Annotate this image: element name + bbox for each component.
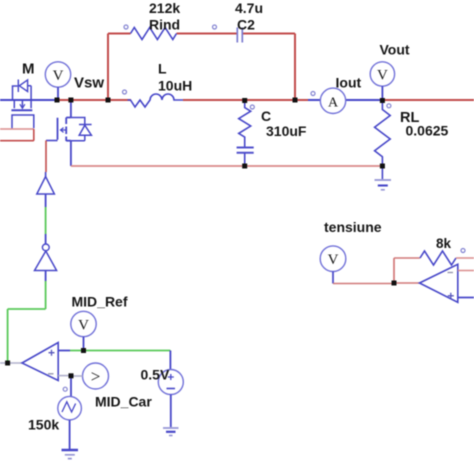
inductor L	[128, 94, 184, 107]
wire: MID_Ref net (green)	[70, 350, 170, 352]
junction: comparator output node	[5, 361, 10, 366]
capacitor C plates	[237, 148, 254, 153]
wire: feedback to 8k (red)	[394, 257, 420, 259]
wire: carrier source top lead (blue)	[70, 376, 72, 397]
wire: C bottom stem (blue)	[244, 154, 246, 167]
op-amp U2 plus pin mark	[448, 293, 454, 299]
svg-text:8k: 8k	[436, 236, 452, 251]
wire: tensiune stem (blue)	[332, 272, 334, 284]
wire: bottom rail (red)	[71, 165, 383, 167]
transistor M channel stubs	[14, 101, 31, 108]
voltmeter Vsw circle	[45, 62, 70, 87]
transistor M (upper MOSFET) body outline	[13, 86, 32, 101]
wire: op-amp minus input stub (pink)	[458, 270, 474, 272]
wire: M gate vertical (red)	[33, 129, 35, 141]
wire: comparator output net vertical (green)	[8, 281, 46, 363]
wire: gate drive vertical to buffer (red)	[45, 141, 47, 173]
node marker: RL top terminal	[387, 104, 391, 108]
wire: buffer input stub (blue)	[45, 172, 47, 177]
transistor M2 arrow	[61, 128, 67, 133]
wire: op-amp output link (red)	[394, 282, 420, 284]
wire: M2 gate lead (blue)	[46, 140, 58, 142]
buffer gate A1	[37, 177, 55, 195]
node marker: 8k right terminal	[461, 249, 465, 253]
voltmeter MID_Car circle	[83, 363, 109, 389]
svg-text:V: V	[53, 68, 64, 84]
node marker: Iout left terminal	[311, 92, 315, 96]
wire: inverter input stem (blue)	[45, 271, 47, 282]
wire: top feedback loop horizontal segments (red)	[108, 33, 295, 35]
node marker: carrier source terminal	[63, 387, 67, 391]
svg-text:4.7u: 4.7u	[235, 0, 263, 16]
wire: op-amp plus input stub (blue)	[458, 297, 474, 299]
svg-text:V: V	[377, 68, 388, 84]
junction: top loop right	[293, 98, 298, 103]
svg-text:L: L	[158, 61, 167, 77]
inverter gate A2 bubble	[42, 244, 49, 251]
resistor RL zigzag	[375, 100, 391, 166]
wire: 0.5V bottom stem (blue)	[170, 395, 172, 428]
ground: 0.5V source	[163, 427, 179, 429]
wire: comparator minus input stub (gray)	[58, 375, 71, 377]
transistor M2 (lower MOSFET) channel and gate	[58, 118, 71, 142]
svg-text:tensiune: tensiune	[324, 219, 382, 235]
wire: 0.5V source top lead (blue)	[169, 351, 171, 370]
wire: 8k right lead to edge (red)	[456, 257, 474, 259]
svg-text:Rind: Rind	[149, 17, 180, 33]
svg-text:MID_Ref: MID_Ref	[72, 294, 128, 310]
wire: buffer-to-inverter net (green)	[45, 207, 47, 234]
svg-text:10uH: 10uH	[158, 78, 192, 94]
svg-text:Vout: Vout	[380, 42, 410, 58]
source 0.5V plus mark	[168, 374, 174, 380]
svg-text:Iout: Iout	[336, 75, 362, 91]
svg-text:MID_Car: MID_Car	[95, 394, 152, 410]
node marker: C top terminal	[250, 105, 254, 109]
op-amp U2 triangle	[420, 264, 458, 302]
ammeter Iout circle	[320, 88, 345, 113]
wire: inverter output stem (blue)	[45, 234, 47, 244]
wire: MID_Car stub (gray)	[71, 375, 83, 377]
svg-text:>: >	[91, 367, 101, 386]
junction: Vout node	[380, 98, 385, 103]
svg-text:Vsw: Vsw	[74, 75, 104, 92]
junction: C bottom node	[242, 164, 247, 169]
wire: RL ground stem (blue)	[381, 166, 383, 179]
svg-text:C: C	[261, 108, 271, 124]
wire: M2 drain vertical (blue)	[70, 100, 72, 118]
junction: tensiune feedback node	[392, 281, 397, 286]
wire: carrier source bottom stem (blue)	[69, 420, 71, 449]
junction: top loop left	[106, 98, 111, 103]
wire: ammeter left lead (blue)	[308, 99, 321, 101]
wire: top feedback loop right vertical (red)	[294, 34, 296, 101]
ground: carrier source	[62, 449, 79, 451]
wire: Vout stem (blue)	[381, 86, 383, 100]
svg-text:C2: C2	[237, 17, 255, 33]
transistor M2 body diode	[71, 118, 92, 141]
junction: Vsw node	[55, 98, 60, 103]
wire: MID_Ref stem (blue)	[83, 337, 85, 351]
transistor M arrow	[20, 104, 25, 108]
svg-text:212k: 212k	[149, 0, 180, 16]
node marker: C2 left terminal	[213, 25, 217, 29]
junction: C top node	[242, 98, 247, 103]
svg-text:0.0625: 0.0625	[406, 123, 449, 139]
transistor M gate electrode	[12, 115, 34, 128]
svg-text:V: V	[78, 318, 89, 334]
wire: comparator plus input stub (blue)	[58, 350, 70, 352]
op-amp comparator U1 plus pin mark	[49, 350, 55, 356]
svg-text:A: A	[328, 95, 339, 110]
node marker: Rind left terminal	[124, 25, 128, 29]
wire: M gate lower lead to left edge (red)	[0, 140, 34, 142]
source V_carrier triangle-wave glyph	[62, 402, 76, 412]
source V_carrier 150k circle	[58, 396, 82, 420]
wire: output node to right edge (red)	[380, 99, 474, 101]
wire: main node Vsw-to-L segment (red)	[57, 99, 131, 101]
wire: M2 source to bottom rail (blue)	[70, 141, 72, 166]
voltmeter MID_Ref circle	[71, 311, 96, 336]
inverter gate A2 triangle	[35, 251, 57, 271]
resistor Rind	[131, 28, 177, 40]
junction: RL bottom node	[380, 164, 385, 169]
source 0.5V minus mark	[167, 388, 176, 390]
op-amp comparator U1 minus pin mark	[48, 373, 54, 375]
wire: top feedback loop left vertical (red)	[107, 34, 109, 101]
wire: Vsw stem (blue)	[57, 87, 59, 100]
capacitor C2	[237, 28, 242, 43]
op-amp U2 minus pin mark	[448, 272, 454, 274]
svg-text:150k: 150k	[28, 417, 59, 433]
ground: RL	[375, 179, 392, 181]
wire: comparator output stub to left edge (gray)	[0, 362, 22, 364]
svg-text:310uF: 310uF	[266, 123, 307, 139]
voltmeter Vout circle	[370, 62, 394, 86]
wire: M gate upper lead to left edge (red)	[0, 128, 34, 130]
wire: feedback node vertical (red)	[393, 258, 395, 283]
svg-text:V: V	[328, 252, 339, 268]
svg-text:M: M	[22, 61, 35, 78]
voltmeter tensiune circle	[320, 246, 346, 272]
resistor 8k zigzag	[420, 251, 456, 265]
wire: L-to-ammeter segment (red)	[183, 99, 308, 101]
transistor M internal diode	[18, 80, 27, 93]
junction: MID_Ref node	[81, 348, 86, 353]
source 0.5V circle	[158, 370, 183, 395]
wire: main node left segment (blue)	[0, 99, 57, 101]
junction: carrier node	[69, 373, 74, 378]
node marker: L left terminal	[123, 90, 127, 94]
capacitor C esr zigzag	[239, 100, 251, 147]
junction: M2 drain node	[68, 98, 73, 103]
transistor M gate bar	[11, 109, 32, 111]
wire: buffer output stem (blue)	[45, 194, 47, 207]
wire: tensiune link (pink)	[333, 283, 394, 285]
op-amp comparator U1 triangle	[22, 343, 58, 381]
wire: ammeter right lead (blue)	[346, 99, 381, 101]
svg-text:0.5V: 0.5V	[141, 367, 170, 383]
